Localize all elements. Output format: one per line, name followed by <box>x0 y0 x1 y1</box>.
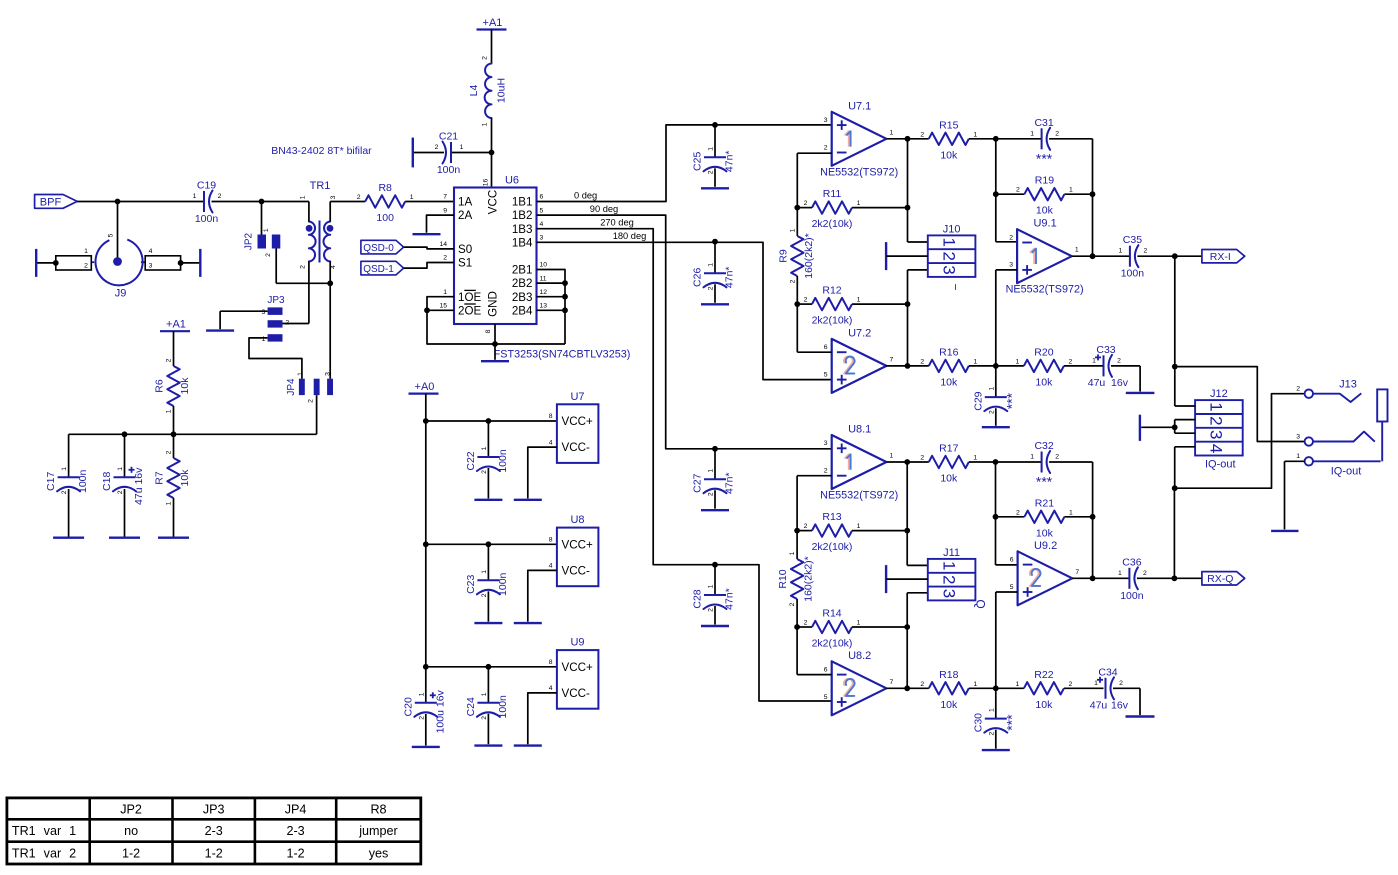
svg-text:7: 7 <box>443 194 447 201</box>
svg-text:2: 2 <box>1016 187 1020 194</box>
svg-text:IQ-out: IQ-out <box>1331 466 1362 478</box>
svg-text:2A: 2A <box>458 209 472 222</box>
svg-text:2: 2 <box>939 575 958 584</box>
svg-text:2: 2 <box>481 470 488 474</box>
svg-text:1: 1 <box>481 570 488 574</box>
svg-text:2: 2 <box>265 253 272 257</box>
svg-text:12: 12 <box>540 289 548 296</box>
svg-text:1: 1 <box>857 200 861 207</box>
svg-text:5: 5 <box>824 694 828 701</box>
svg-text:TR1 var 2: TR1 var 2 <box>12 847 76 861</box>
svg-text:C19: C19 <box>197 180 216 192</box>
svg-text:9: 9 <box>443 207 447 214</box>
svg-text:4: 4 <box>549 439 553 446</box>
svg-text:R11: R11 <box>823 188 842 200</box>
svg-text:2: 2 <box>708 286 715 290</box>
svg-text:100n: 100n <box>1121 268 1145 280</box>
svg-text:10uH: 10uH <box>496 78 508 103</box>
svg-text:U9.1: U9.1 <box>1033 218 1056 230</box>
svg-text:0 deg: 0 deg <box>574 190 597 200</box>
svg-text:5: 5 <box>1010 584 1014 591</box>
svg-text:***: *** <box>1003 392 1019 409</box>
svg-text:10: 10 <box>540 262 548 269</box>
svg-text:2: 2 <box>300 265 307 269</box>
svg-text:1-2: 1-2 <box>205 847 223 861</box>
svg-text:TR1 var 1: TR1 var 1 <box>12 824 76 838</box>
svg-text:***: *** <box>1003 714 1019 731</box>
svg-text:C23: C23 <box>465 575 477 594</box>
svg-text:2: 2 <box>920 681 924 688</box>
svg-text:1-2: 1-2 <box>286 847 304 861</box>
svg-text:2: 2 <box>708 170 715 174</box>
svg-text:C36: C36 <box>1122 556 1141 568</box>
svg-text:+A0: +A0 <box>415 381 435 393</box>
svg-text:2: 2 <box>920 358 924 365</box>
svg-text:J9: J9 <box>115 288 127 300</box>
svg-text:RX-I: RX-I <box>1210 251 1231 263</box>
svg-text:47u: 47u <box>1090 699 1108 711</box>
svg-text:47n*: 47n* <box>724 472 736 494</box>
svg-text:2: 2 <box>1143 570 1147 577</box>
svg-text:6: 6 <box>540 194 544 201</box>
svg-text:1B1: 1B1 <box>512 196 533 209</box>
svg-text:3: 3 <box>330 195 337 199</box>
svg-text:1: 1 <box>973 681 977 688</box>
svg-text:47n*: 47n* <box>724 266 736 288</box>
svg-text:1: 1 <box>482 122 489 126</box>
svg-text:3: 3 <box>1207 430 1226 439</box>
svg-text:1B2: 1B2 <box>512 209 533 222</box>
svg-text:2: 2 <box>435 144 439 151</box>
svg-text:8: 8 <box>485 329 492 333</box>
svg-text:R20: R20 <box>1034 346 1053 358</box>
svg-text:IQ-out: IQ-out <box>1205 459 1236 471</box>
svg-text:R18: R18 <box>939 669 958 681</box>
svg-text:5: 5 <box>540 207 544 214</box>
svg-text:3: 3 <box>824 440 828 447</box>
svg-text:C25: C25 <box>692 152 704 171</box>
svg-text:RX-Q: RX-Q <box>1207 573 1233 585</box>
svg-text:2: 2 <box>824 144 828 151</box>
svg-text:3: 3 <box>325 372 332 376</box>
svg-text:2: 2 <box>1055 130 1059 137</box>
svg-text:BN43-2402 8T* bifilar: BN43-2402 8T* bifilar <box>271 145 372 157</box>
svg-text:VCC+: VCC+ <box>562 661 593 674</box>
svg-text:2: 2 <box>920 131 924 138</box>
svg-text:10k: 10k <box>179 469 191 487</box>
svg-text:J13: J13 <box>1339 379 1357 391</box>
svg-text:NE5532(TS972): NE5532(TS972) <box>820 166 898 178</box>
svg-text:10k: 10k <box>179 377 191 395</box>
svg-text:7: 7 <box>1075 569 1079 576</box>
svg-text:2: 2 <box>708 492 715 496</box>
svg-text:100n: 100n <box>195 213 219 225</box>
svg-text:2: 2 <box>1117 357 1121 364</box>
svg-text:C34: C34 <box>1098 666 1117 678</box>
svg-text:2: 2 <box>481 716 488 720</box>
svg-text:C24: C24 <box>465 697 477 716</box>
svg-text:C30: C30 <box>972 713 984 732</box>
svg-text:1: 1 <box>708 147 715 151</box>
svg-text:47n*: 47n* <box>724 588 736 610</box>
svg-text:1: 1 <box>1119 248 1123 255</box>
svg-text:1: 1 <box>1207 402 1226 411</box>
svg-text:R22: R22 <box>1034 669 1053 681</box>
svg-text:2: 2 <box>804 297 808 304</box>
svg-text:VCC-: VCC- <box>562 441 590 454</box>
svg-text:47u 16v: 47u 16v <box>133 467 145 505</box>
svg-text:no: no <box>124 824 138 838</box>
svg-text:1: 1 <box>193 193 197 200</box>
svg-text:2k2(10k): 2k2(10k) <box>812 638 853 650</box>
svg-text:JP4: JP4 <box>285 803 307 817</box>
svg-text:C32: C32 <box>1034 440 1053 452</box>
svg-text:2: 2 <box>804 523 808 530</box>
svg-text:1: 1 <box>1069 509 1073 516</box>
svg-text:160(2k2)*: 160(2k2)* <box>803 556 815 602</box>
svg-text:1: 1 <box>166 501 173 505</box>
svg-text:4: 4 <box>149 248 153 255</box>
svg-text:C31: C31 <box>1034 117 1053 129</box>
svg-text:1: 1 <box>1069 187 1073 194</box>
svg-text:TR1: TR1 <box>310 180 331 192</box>
svg-text:R8: R8 <box>370 803 386 817</box>
svg-text:2: 2 <box>1009 234 1013 241</box>
svg-text:6: 6 <box>824 344 828 351</box>
svg-text:3: 3 <box>939 589 958 598</box>
svg-text:1: 1 <box>1075 247 1079 254</box>
svg-text:JP2: JP2 <box>120 803 142 817</box>
svg-text:C35: C35 <box>1123 234 1142 246</box>
svg-text:10k: 10k <box>940 149 958 161</box>
svg-text:R6: R6 <box>154 379 166 393</box>
svg-text:2: 2 <box>218 193 222 200</box>
svg-text:6: 6 <box>1010 556 1014 563</box>
svg-text:2B2: 2B2 <box>512 277 533 290</box>
svg-text:2: 2 <box>1069 358 1073 365</box>
svg-text:2: 2 <box>988 410 995 414</box>
svg-text:100u 16v: 100u 16v <box>434 689 446 733</box>
svg-text:R15: R15 <box>939 119 958 131</box>
svg-text:1: 1 <box>481 446 488 450</box>
svg-text:2: 2 <box>1016 509 1020 516</box>
svg-text:VCC+: VCC+ <box>562 415 593 428</box>
svg-text:1: 1 <box>789 551 796 555</box>
svg-text:2: 2 <box>482 56 489 60</box>
svg-text:yes: yes <box>369 847 389 861</box>
svg-text:GND: GND <box>487 291 500 317</box>
svg-text:1: 1 <box>857 620 861 627</box>
svg-text:4: 4 <box>549 563 553 570</box>
svg-text:QSD-1: QSD-1 <box>363 264 394 275</box>
svg-text:16v: 16v <box>1111 699 1129 711</box>
svg-text:5: 5 <box>824 371 828 378</box>
svg-text:R8: R8 <box>378 182 392 194</box>
svg-text:***: *** <box>1036 150 1053 166</box>
svg-text:J10: J10 <box>943 223 961 235</box>
svg-text:1: 1 <box>61 467 68 471</box>
svg-text:2: 2 <box>939 251 958 260</box>
svg-text:Q: Q <box>974 599 988 608</box>
svg-text:2: 2 <box>1207 416 1226 425</box>
svg-text:14: 14 <box>439 241 447 248</box>
svg-text:2: 2 <box>481 593 488 597</box>
svg-text:U8: U8 <box>570 514 584 526</box>
svg-text:2: 2 <box>418 716 425 720</box>
svg-text:VCC-: VCC- <box>562 687 590 700</box>
svg-text:10k: 10k <box>1036 205 1054 217</box>
svg-text:1: 1 <box>1030 130 1034 137</box>
svg-text:2: 2 <box>84 262 88 269</box>
svg-text:FST3253(SN74CBTLV3253): FST3253(SN74CBTLV3253) <box>494 349 631 361</box>
svg-text:U8.1: U8.1 <box>848 424 871 436</box>
svg-text:2B1: 2B1 <box>512 264 533 277</box>
svg-text:2: 2 <box>117 490 124 494</box>
svg-text:jumper: jumper <box>358 824 398 838</box>
svg-text:6: 6 <box>824 666 828 673</box>
svg-text:R21: R21 <box>1035 497 1054 509</box>
svg-text:1: 1 <box>1016 358 1020 365</box>
svg-text:270 deg: 270 deg <box>600 218 634 228</box>
svg-text:100n: 100n <box>77 469 89 493</box>
svg-text:16: 16 <box>483 179 490 187</box>
svg-text:JP3: JP3 <box>203 803 225 817</box>
svg-text:R10: R10 <box>777 569 789 588</box>
svg-text:1A: 1A <box>458 196 472 209</box>
svg-text:1: 1 <box>443 289 447 296</box>
svg-text:BPF: BPF <box>40 196 62 208</box>
svg-text:R12: R12 <box>822 285 841 297</box>
svg-text:C28: C28 <box>692 589 704 608</box>
svg-text:2: 2 <box>1296 386 1300 393</box>
svg-text:+A1: +A1 <box>166 319 186 331</box>
svg-text:2: 2 <box>357 194 361 201</box>
svg-text:R17: R17 <box>939 443 958 455</box>
svg-text:1B4: 1B4 <box>512 236 533 249</box>
svg-text:1: 1 <box>460 144 464 151</box>
svg-text:C27: C27 <box>692 473 704 492</box>
svg-text:1: 1 <box>481 692 488 696</box>
svg-text:2: 2 <box>824 468 828 475</box>
svg-text:U7.1: U7.1 <box>848 100 871 112</box>
svg-text:2k2(10k): 2k2(10k) <box>812 541 853 553</box>
svg-text:1: 1 <box>708 584 715 588</box>
svg-text:1OE: 1OE <box>458 291 481 304</box>
svg-text:1: 1 <box>166 409 173 413</box>
svg-text:13: 13 <box>540 303 548 310</box>
svg-text:1: 1 <box>1030 454 1034 461</box>
svg-text:2: 2 <box>61 490 68 494</box>
svg-text:JP2: JP2 <box>244 232 255 250</box>
svg-text:160(2k2)*: 160(2k2)* <box>803 233 815 279</box>
svg-text:2k2(10k): 2k2(10k) <box>812 315 853 327</box>
svg-text:U6: U6 <box>505 175 519 187</box>
svg-text:3: 3 <box>262 309 266 316</box>
svg-text:1B3: 1B3 <box>512 223 533 236</box>
svg-text:2: 2 <box>988 731 995 735</box>
svg-text:4: 4 <box>540 221 544 228</box>
svg-text:U9.2: U9.2 <box>1034 540 1057 552</box>
svg-text:1: 1 <box>1092 357 1096 364</box>
svg-text:3: 3 <box>540 235 544 242</box>
svg-text:100n: 100n <box>437 164 461 176</box>
svg-text:3: 3 <box>1009 262 1013 269</box>
svg-text:11: 11 <box>540 275 547 282</box>
svg-text:VCC+: VCC+ <box>562 538 593 551</box>
svg-text:L4: L4 <box>468 85 480 97</box>
svg-text:2: 2 <box>789 602 796 606</box>
svg-text:1: 1 <box>1296 453 1300 460</box>
svg-text:1-2: 1-2 <box>122 847 140 861</box>
svg-text:4: 4 <box>1207 444 1226 453</box>
svg-text:S1: S1 <box>458 257 472 270</box>
svg-text:2: 2 <box>804 620 808 627</box>
svg-text:2: 2 <box>443 255 447 262</box>
svg-text:1: 1 <box>708 263 715 267</box>
svg-text:2: 2 <box>920 455 924 462</box>
svg-text:2: 2 <box>166 358 173 362</box>
svg-text:NE5532(TS972): NE5532(TS972) <box>820 490 898 502</box>
svg-text:3: 3 <box>939 265 958 274</box>
svg-text:2: 2 <box>804 200 808 207</box>
svg-text:VCC-: VCC- <box>562 565 590 578</box>
svg-text:1: 1 <box>973 455 977 462</box>
svg-text:U9: U9 <box>570 637 584 649</box>
svg-text:NE5532(TS972): NE5532(TS972) <box>1006 284 1084 296</box>
svg-text:2: 2 <box>1055 454 1059 461</box>
svg-text:1: 1 <box>973 358 977 365</box>
svg-text:10k: 10k <box>1035 699 1053 711</box>
svg-text:3: 3 <box>149 262 153 269</box>
svg-text:QSD-0: QSD-0 <box>363 243 394 254</box>
svg-text:1: 1 <box>857 523 861 530</box>
svg-text:2: 2 <box>789 279 796 283</box>
svg-text:R13: R13 <box>822 511 841 523</box>
svg-text:2: 2 <box>1069 681 1073 688</box>
svg-text:100n: 100n <box>497 449 509 473</box>
svg-text:1: 1 <box>890 129 894 136</box>
svg-text:1: 1 <box>1016 681 1020 688</box>
svg-text:180 deg: 180 deg <box>613 231 647 241</box>
svg-text:8: 8 <box>549 413 553 420</box>
svg-text:5: 5 <box>108 233 115 237</box>
svg-text:C22: C22 <box>465 451 477 470</box>
svg-text:R9: R9 <box>777 249 789 263</box>
svg-text:C18: C18 <box>101 472 113 491</box>
svg-text:−: − <box>949 283 963 290</box>
svg-text:R14: R14 <box>822 608 841 620</box>
svg-text:2: 2 <box>285 320 289 327</box>
svg-text:10k: 10k <box>1036 527 1054 539</box>
svg-text:1: 1 <box>973 131 977 138</box>
svg-text:4: 4 <box>549 685 553 692</box>
svg-text:2: 2 <box>308 399 315 403</box>
svg-text:U7.2: U7.2 <box>848 327 871 339</box>
svg-text:1: 1 <box>1094 680 1098 687</box>
svg-text:J12: J12 <box>1210 388 1228 400</box>
svg-text:100: 100 <box>376 212 394 224</box>
svg-text:10k: 10k <box>940 376 958 388</box>
svg-text:VCC: VCC <box>487 190 500 214</box>
svg-text:15: 15 <box>439 303 447 310</box>
svg-text:C20: C20 <box>402 697 414 716</box>
svg-text:2k2(10k): 2k2(10k) <box>812 218 853 230</box>
svg-text:2: 2 <box>166 450 173 454</box>
svg-text:C33: C33 <box>1096 344 1115 356</box>
svg-text:1: 1 <box>939 561 958 570</box>
svg-text:2B4: 2B4 <box>512 304 533 317</box>
svg-text:+A1: +A1 <box>483 17 503 29</box>
svg-text:1: 1 <box>1118 570 1122 577</box>
svg-text:C26: C26 <box>692 268 704 287</box>
svg-text:100n: 100n <box>497 572 509 596</box>
svg-text:16v: 16v <box>1111 377 1129 389</box>
svg-text:U8.2: U8.2 <box>848 650 871 662</box>
svg-text:C29: C29 <box>972 391 984 410</box>
svg-text:R7: R7 <box>154 471 166 485</box>
svg-text:1: 1 <box>263 228 270 232</box>
svg-text:1: 1 <box>297 372 304 376</box>
svg-text:2: 2 <box>1119 680 1123 687</box>
svg-text:100n: 100n <box>1120 590 1144 602</box>
svg-text:2: 2 <box>1144 248 1148 255</box>
svg-text:R19: R19 <box>1035 175 1054 187</box>
svg-text:C21: C21 <box>439 131 458 143</box>
svg-text:7: 7 <box>890 356 894 363</box>
svg-text:90 deg: 90 deg <box>590 204 618 214</box>
svg-text:10k: 10k <box>1035 376 1053 388</box>
svg-text:2: 2 <box>708 608 715 612</box>
svg-text:10k: 10k <box>940 473 958 485</box>
svg-text:8: 8 <box>549 659 553 666</box>
svg-text:1: 1 <box>890 453 894 460</box>
svg-text:C17: C17 <box>45 472 57 491</box>
svg-text:2-3: 2-3 <box>286 824 304 838</box>
svg-text:1: 1 <box>988 386 995 390</box>
svg-text:47n*: 47n* <box>724 150 736 172</box>
svg-text:47u: 47u <box>1088 377 1106 389</box>
svg-text:S0: S0 <box>458 243 472 256</box>
svg-text:1: 1 <box>789 228 796 232</box>
svg-text:100n: 100n <box>497 695 509 719</box>
svg-text:1: 1 <box>410 194 414 201</box>
svg-text:7: 7 <box>890 679 894 686</box>
svg-text:1: 1 <box>708 469 715 473</box>
svg-text:JP3: JP3 <box>267 295 285 306</box>
svg-text:10k: 10k <box>940 699 958 711</box>
svg-text:2B3: 2B3 <box>512 291 533 304</box>
svg-text:***: *** <box>1036 474 1053 490</box>
svg-text:1: 1 <box>418 692 425 696</box>
svg-text:1: 1 <box>84 248 88 255</box>
svg-text:1: 1 <box>939 238 958 247</box>
svg-text:1: 1 <box>988 708 995 712</box>
svg-text:2OE: 2OE <box>458 304 481 317</box>
svg-text:U7: U7 <box>570 391 584 403</box>
svg-text:J11: J11 <box>943 547 960 559</box>
svg-text:1: 1 <box>117 467 124 471</box>
svg-text:3: 3 <box>824 117 828 124</box>
svg-text:1: 1 <box>857 297 861 304</box>
svg-text:JP4: JP4 <box>286 378 297 396</box>
svg-text:R16: R16 <box>939 346 958 358</box>
svg-text:8: 8 <box>549 537 553 544</box>
svg-text:1: 1 <box>300 195 307 199</box>
svg-text:3: 3 <box>1296 433 1300 440</box>
svg-text:2-3: 2-3 <box>205 824 223 838</box>
